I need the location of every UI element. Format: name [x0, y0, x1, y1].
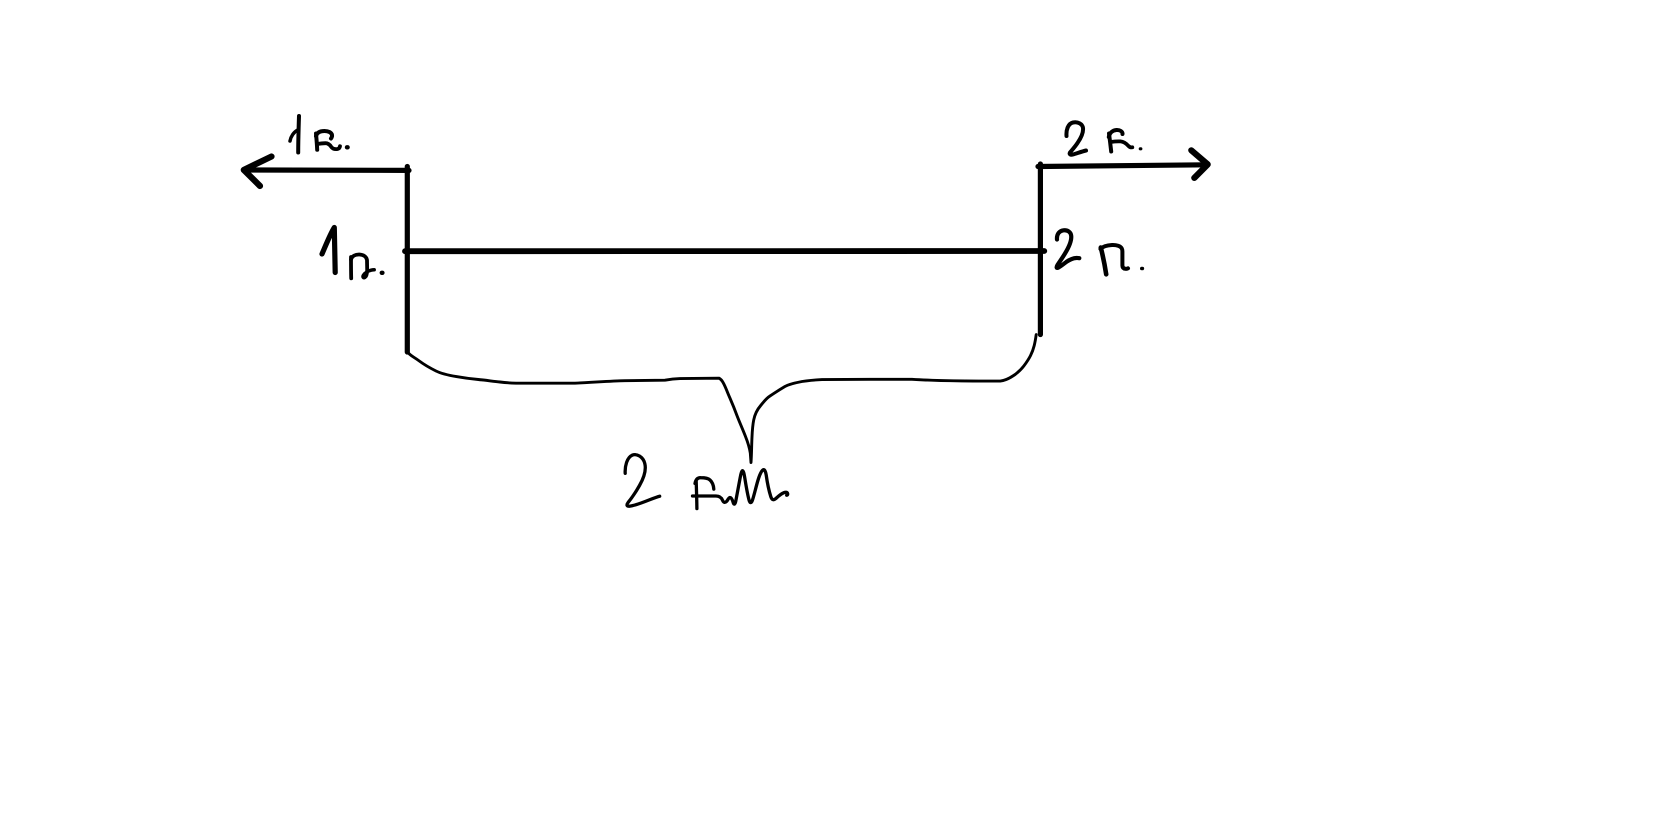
label 2p right of post	[1057, 230, 1143, 274]
brace under segment (2 km span)	[408, 335, 1037, 463]
label 1k top-left	[290, 116, 348, 153]
label 2km below brace	[625, 455, 788, 509]
right arrow shaft	[1038, 165, 1206, 167]
right arrowhead	[1191, 150, 1207, 178]
label 1p left of post	[322, 228, 335, 273]
right vertical line (point 2 post)	[1038, 164, 1043, 335]
main horizontal segment (road 1-2)	[405, 248, 1044, 254]
left vertical line (point 1 post)	[405, 167, 410, 353]
left arrow shaft	[244, 167, 409, 173]
label 2k top-right	[1066, 122, 1140, 154]
left arrowhead	[244, 157, 272, 187]
